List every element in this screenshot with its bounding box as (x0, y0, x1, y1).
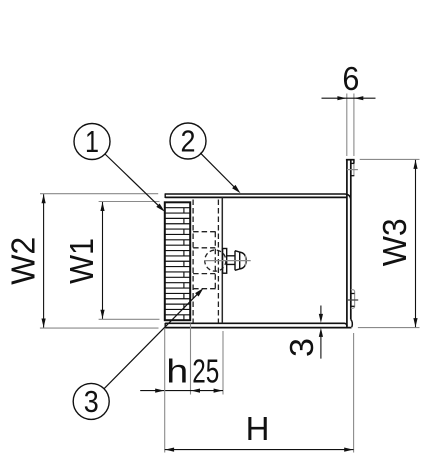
bracket top mounting slot tab (351, 160, 355, 176)
balloon 1 leader (105, 154, 165, 212)
screw center line (204, 255, 251, 266)
dimension W1 extension lines (99, 202, 160, 320)
heatsink fin block outline (item 1) (165, 202, 190, 320)
dimension W2 extension lines (40, 194, 159, 328)
heatsink fins (165, 208, 190, 315)
dimension 6 line and arrows (322, 96, 376, 100)
bracket bottom bend radius (351, 319, 353, 327)
balloon 2 leader (200, 153, 240, 194)
dimension W3 line and arrows (413, 160, 417, 327)
SSR body bottom edge (165, 323, 347, 326)
svg-text:6: 6 (342, 60, 359, 97)
dimension H line and arrows (165, 448, 354, 452)
svg-text:2: 2 (181, 124, 196, 159)
dimension W1 line and arrows (100, 202, 104, 319)
SSR body top edge (165, 196, 347, 198)
dimension W3 extension lines (358, 159, 420, 327)
hidden edge dashed line (heatsink base) (192, 200, 194, 323)
top slot center line (347, 169, 358, 171)
bracket flange inner (right) line (350, 160, 352, 320)
dimension W2 line and arrows (42, 194, 46, 327)
balloon 1 circle (74, 124, 110, 160)
svg-text:1: 1 (85, 124, 99, 159)
plate bottom edge (165, 327, 351, 329)
hidden SSR base outline (dashed, item 3) (193, 232, 218, 289)
hidden edge dashed line (plate back) (217, 200, 219, 323)
svg-text:W3: W3 (376, 218, 413, 266)
screw head (235, 251, 246, 271)
screw shaft (227, 256, 235, 265)
svg-text:W1: W1 (63, 238, 100, 284)
bracket flange outer (left) line (346, 160, 348, 328)
hidden thermal pad outline (dashed) (193, 232, 215, 289)
dimension h/25 extension lines (191, 324, 224, 395)
plate front surface line (221, 197, 223, 323)
bracket bottom mounting slot tab (351, 290, 355, 309)
balloon 3 leader (104, 288, 203, 389)
plate left edge below SSR (164, 323, 166, 328)
hidden screw hole circle (dashed) (205, 250, 226, 271)
balloon 2 circle (170, 123, 206, 159)
svg-text:3: 3 (84, 384, 99, 419)
svg-text:H: H (246, 410, 270, 447)
svg-text:25: 25 (192, 353, 219, 390)
screw boss (223, 249, 227, 274)
fin gap divider lines (183, 208, 185, 321)
svg-text:h: h (166, 353, 188, 390)
mounting plate top edge (item 2 face outline) (165, 194, 351, 201)
plate left edge above SSR (164, 193, 166, 198)
balloon 3 circle (73, 383, 109, 419)
svg-text:3: 3 (283, 338, 320, 357)
bottom slot center line (347, 299, 358, 301)
dimension H extension lines (165, 329, 354, 453)
svg-text:W2: W2 (5, 237, 42, 285)
dimension h and 25 line and arrows (140, 389, 223, 393)
dimension 6 extension lines (347, 94, 354, 157)
dimension 3 lines and arrows (319, 306, 323, 359)
bracket top edge (346, 159, 355, 161)
